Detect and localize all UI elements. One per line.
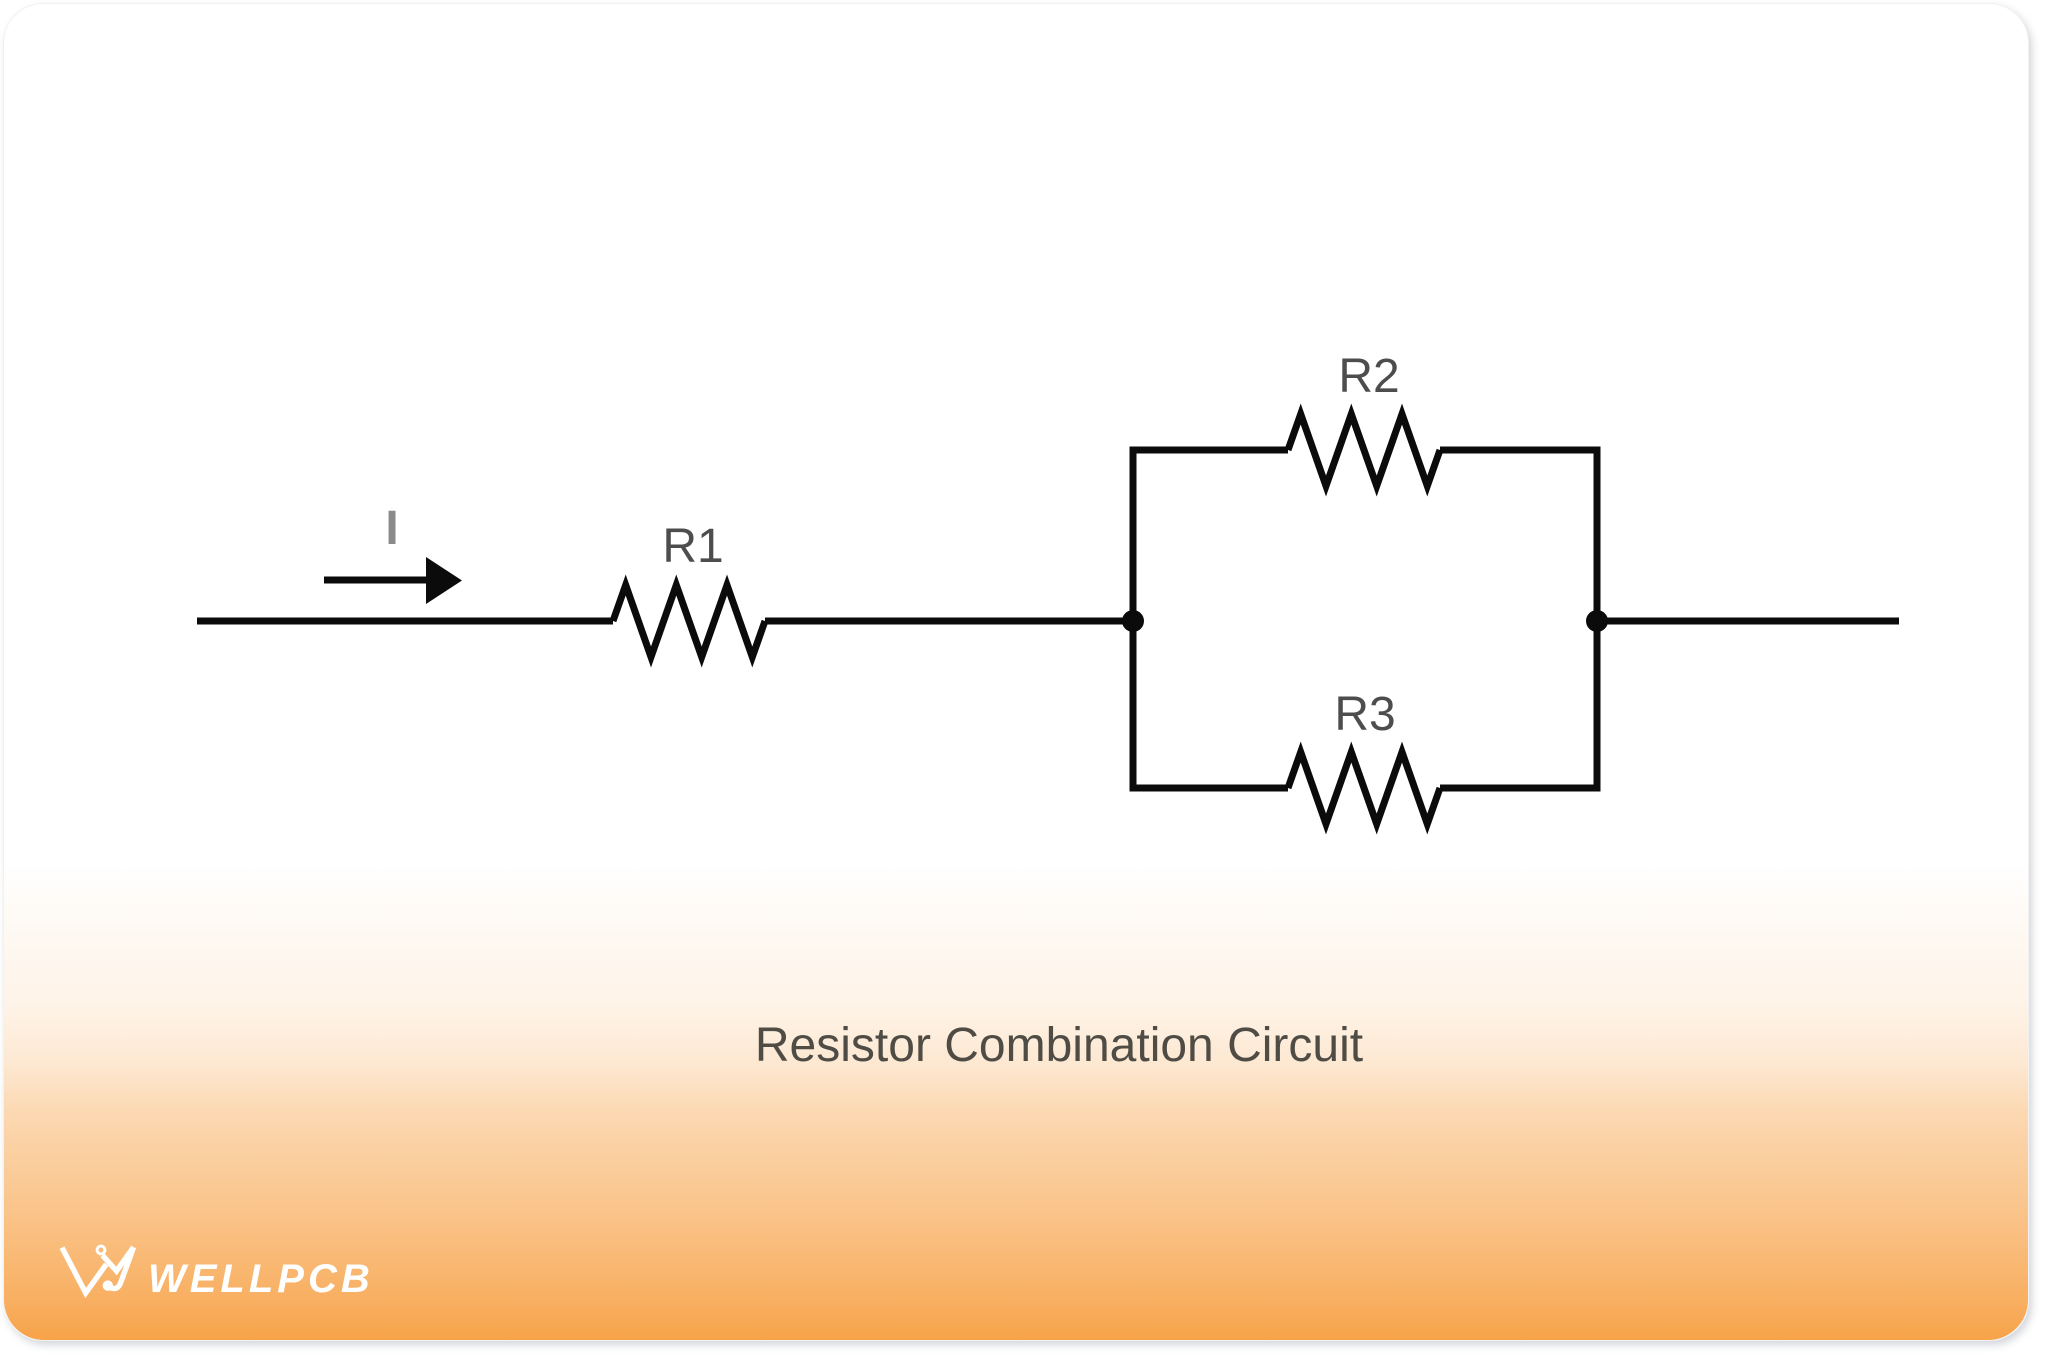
logo W mark via dot <box>103 1280 113 1290</box>
wire left parallel branch frame <box>1133 450 1288 788</box>
label R3 <box>1305 692 1425 738</box>
label R1 <box>633 524 753 570</box>
wire right parallel branch frame <box>1440 450 1597 788</box>
svg-text:WELLPCB: WELLPCB <box>148 1257 374 1301</box>
resistor R3 <box>1288 752 1440 824</box>
node right junction <box>1586 610 1608 632</box>
wire left segment <box>197 618 613 625</box>
logo wellpcb <box>0 1230 420 1350</box>
resistor R2 <box>1288 414 1440 486</box>
logo W mark <box>62 1246 134 1293</box>
node left junction <box>1122 610 1144 632</box>
orange gradient footer <box>4 864 2028 1340</box>
label I <box>362 506 422 552</box>
label R2 <box>1309 354 1429 400</box>
wire current arrow shaft <box>324 577 430 584</box>
resistor R1 <box>613 585 765 657</box>
wire right segment <box>1597 618 1899 625</box>
wire R1 to left node <box>765 618 1133 625</box>
caption text <box>559 1022 1559 1070</box>
current arrow head <box>426 557 462 604</box>
